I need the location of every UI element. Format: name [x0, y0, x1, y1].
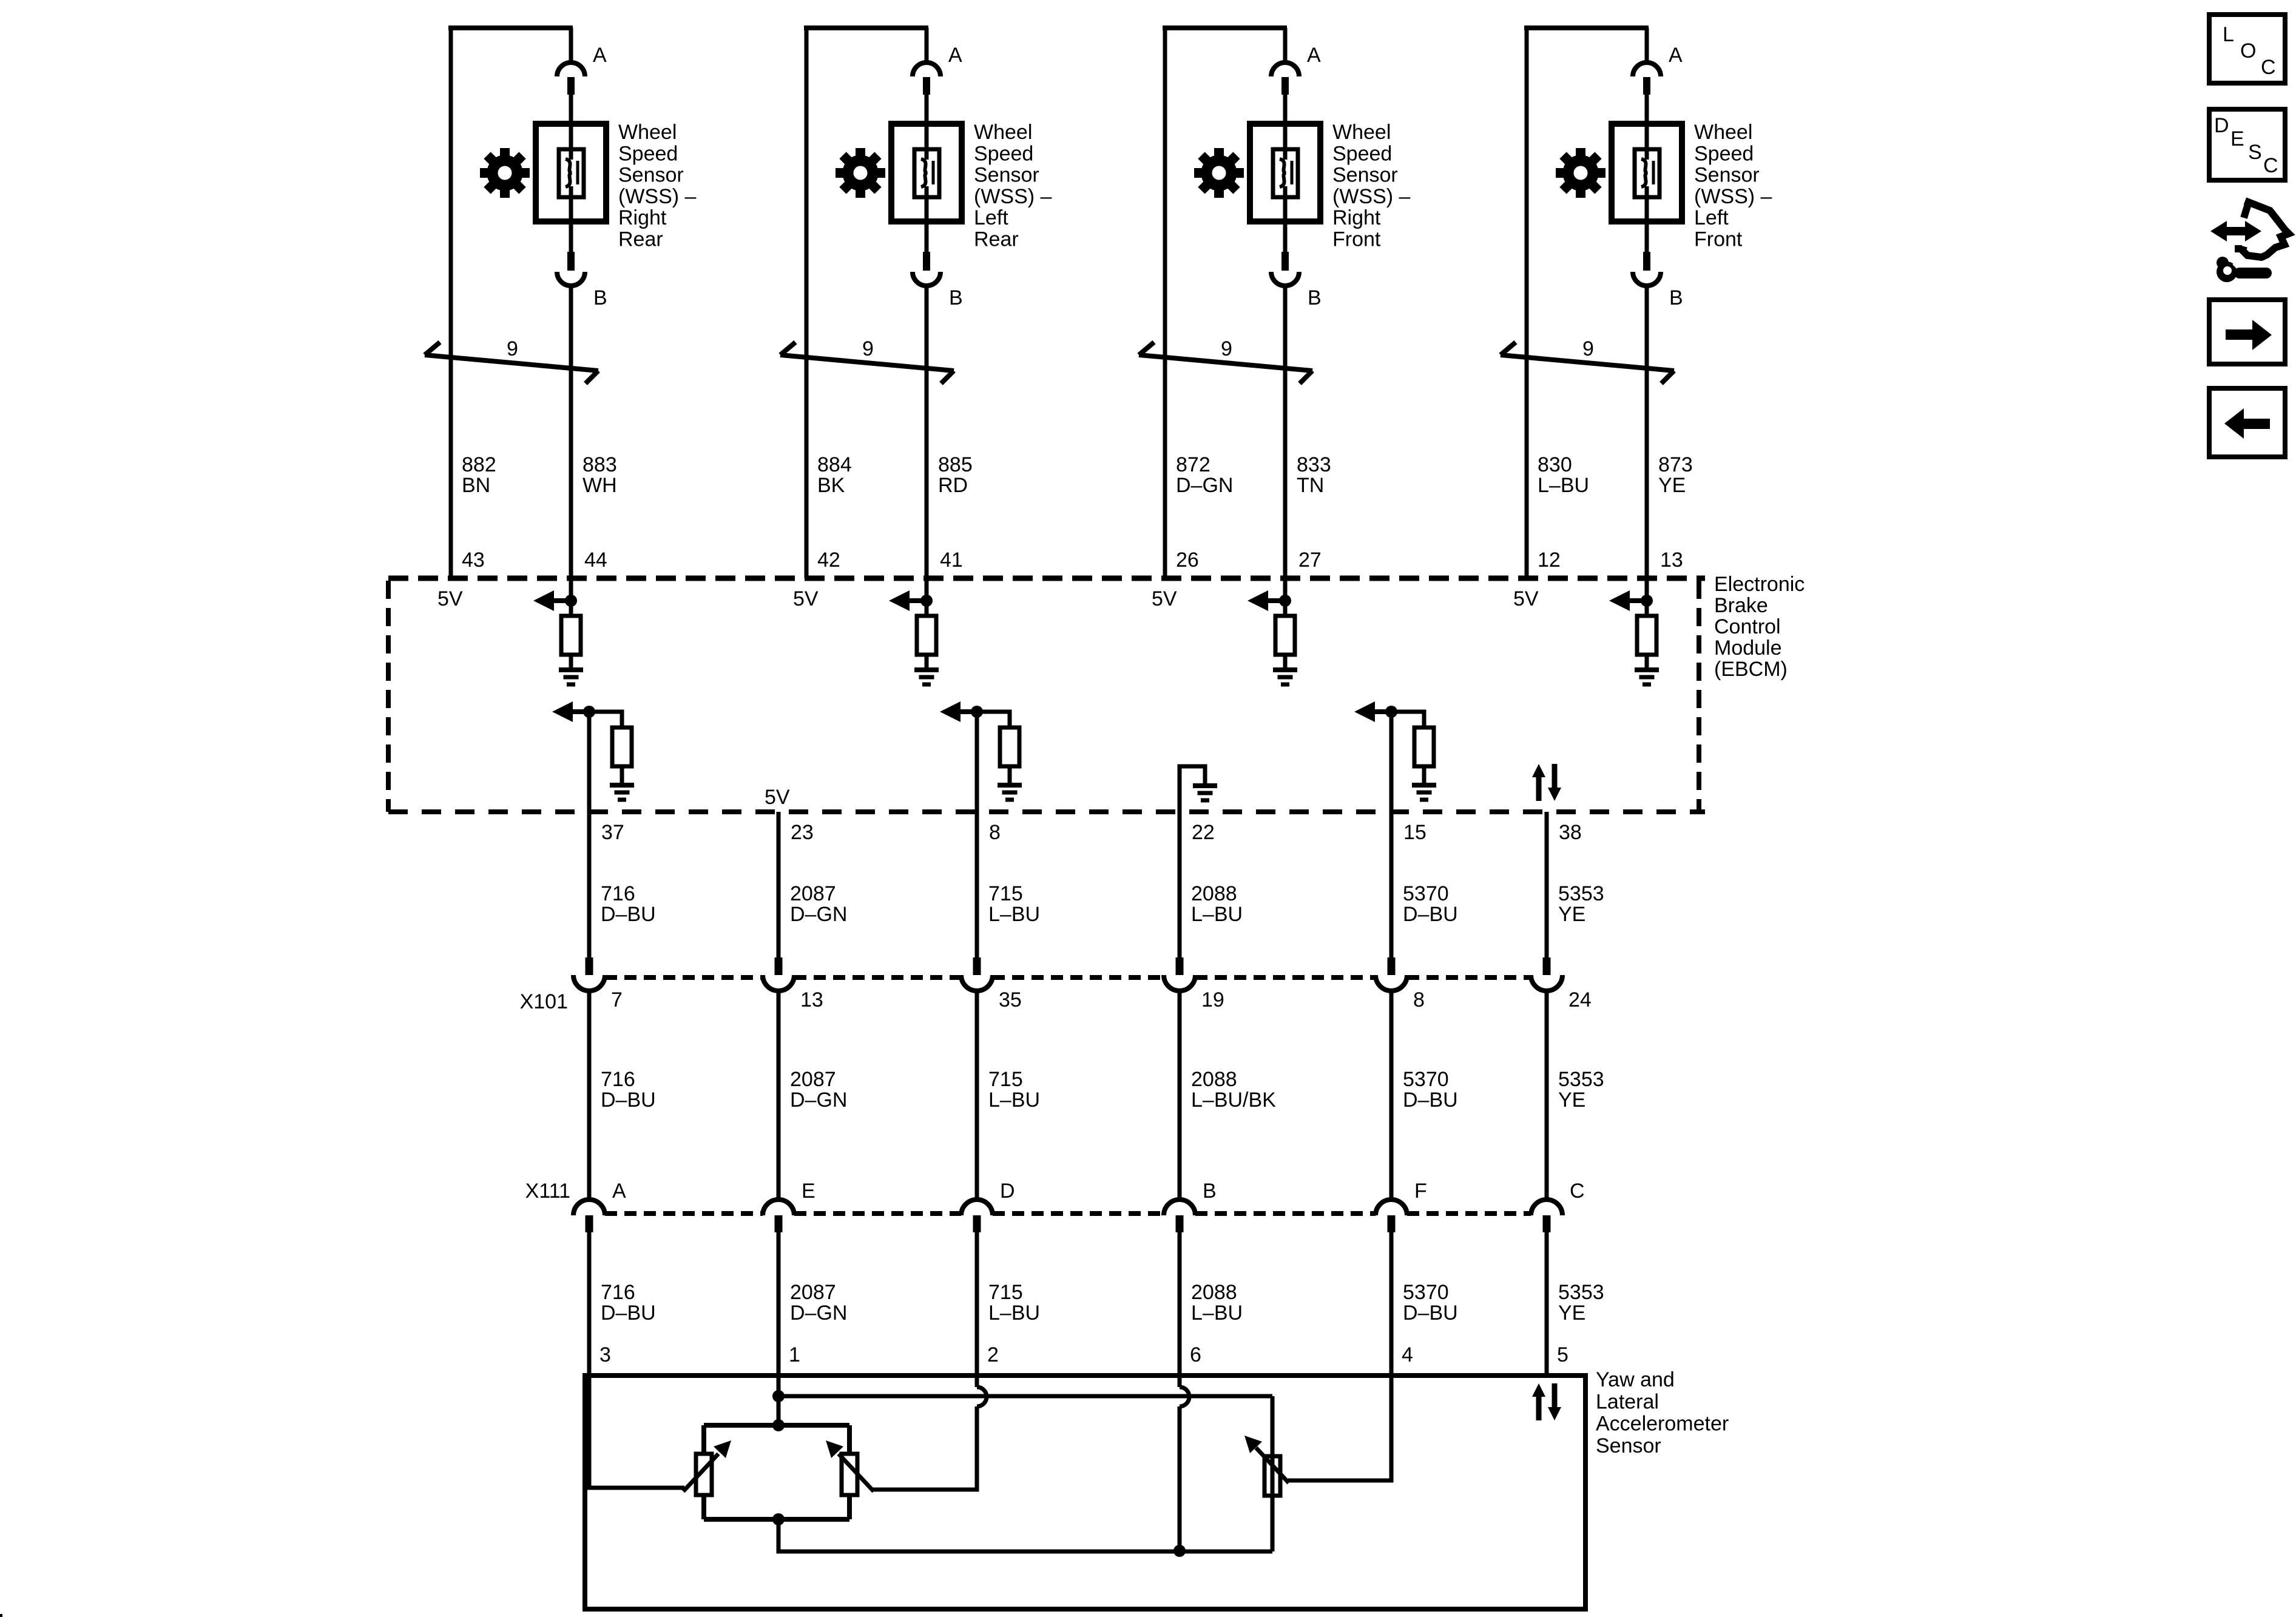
- svg-text:883WH: 883WH: [582, 453, 617, 497]
- svg-text:D: D: [1000, 1180, 1015, 1203]
- wire 5353 YE X101 to X111: [1545, 991, 1549, 1200]
- svg-text:7: 7: [611, 988, 623, 1011]
- svg-text:12: 12: [1538, 549, 1561, 572]
- svg-text:13: 13: [1660, 549, 1683, 572]
- svg-text:5V: 5V: [1513, 587, 1539, 610]
- X101 cavity 24: [1531, 957, 1562, 991]
- wire pin2 to lateral sensor wiper with hop: [975, 1232, 979, 1387]
- svg-text:8: 8: [1413, 988, 1425, 1011]
- svg-text:S: S: [2248, 141, 2262, 164]
- X101 cavity 7: [573, 957, 605, 991]
- junction bridge bottom: [772, 1513, 785, 1525]
- svg-text:15: 15: [1403, 821, 1427, 844]
- svg-text:5V: 5V: [437, 587, 463, 610]
- yaw rate bridge box: [704, 1425, 849, 1519]
- wire 2088 L-BU pin22 to X101-19: [1178, 812, 1182, 957]
- svg-text:A: A: [1307, 44, 1321, 67]
- X111 cavity C: [1531, 1200, 1562, 1232]
- wire pin3 to yaw-rate variable resistor wiper: [589, 1232, 684, 1488]
- svg-text:9: 9: [507, 337, 518, 360]
- svg-text:5V: 5V: [765, 786, 790, 809]
- svg-text:C: C: [1570, 1180, 1585, 1203]
- svg-text:1: 1: [789, 1343, 800, 1366]
- EBCM output driver arrow, resistor and ground at x=971: [552, 701, 634, 800]
- svg-text:E: E: [2230, 127, 2244, 150]
- svg-text:44: 44: [584, 549, 607, 572]
- svg-text:885RD: 885RD: [938, 453, 973, 497]
- svg-text:6: 6: [1190, 1343, 1201, 1366]
- X111 cavity D: [961, 1200, 993, 1232]
- EBCM output driver arrow, resistor and ground at x=2293: [1354, 701, 1436, 800]
- wire pin1 5V supply: [777, 1232, 781, 1425]
- variable resistor R-B: [842, 1454, 857, 1495]
- EBCM serial data symbol at pin 38: [1532, 764, 1561, 801]
- svg-text:C: C: [2261, 56, 2276, 79]
- svg-text:B: B: [593, 286, 607, 309]
- svg-text:19: 19: [1201, 988, 1224, 1011]
- EBCM 5V pull-up, arrow, resistor and ground at wire x=2118: [1248, 590, 1297, 684]
- svg-text:42: 42: [817, 549, 840, 572]
- X111 cavity F: [1376, 1200, 1407, 1232]
- wire 5370 D-BU pin15 to X101-8: [1389, 712, 1394, 957]
- svg-text:F: F: [1414, 1180, 1427, 1203]
- svg-text:B: B: [1308, 286, 1322, 309]
- wire 2087 D-GN X101 to X111: [777, 991, 781, 1200]
- svg-text:37: 37: [601, 821, 624, 844]
- svg-text:26: 26: [1176, 549, 1199, 572]
- wire 716 D-BU pin37 to X101-7: [587, 712, 592, 957]
- junction ground bus / pin 6: [1173, 1545, 1186, 1557]
- svg-text:9: 9: [1582, 337, 1594, 360]
- svg-text:35: 35: [999, 988, 1022, 1011]
- svg-text:X101: X101: [520, 990, 568, 1013]
- X111 cavity E: [763, 1200, 794, 1232]
- svg-text:24: 24: [1568, 988, 1592, 1011]
- svg-text:B: B: [949, 286, 963, 309]
- svg-text:22: 22: [1192, 821, 1215, 844]
- EBCM module dashed box: [388, 576, 1705, 581]
- svg-text:A: A: [612, 1180, 626, 1203]
- ground return bus: [778, 1496, 1272, 1551]
- svg-text:A: A: [1669, 44, 1683, 67]
- svg-text:5V: 5V: [793, 587, 819, 610]
- wheel speed sensor Right Front (WSS) with tone wheel: [1139, 25, 1320, 601]
- wheel speed sensor Left Front (WSS) with tone wheel: [1501, 25, 1682, 601]
- svg-text:23: 23: [791, 821, 814, 844]
- X101 cavity 8: [1376, 957, 1407, 991]
- variable resistor R-C (lateral accelerometer): [1264, 1456, 1280, 1496]
- wire pin5 shield/serial: [1545, 1232, 1549, 1376]
- svg-text:27: 27: [1298, 549, 1322, 572]
- X111 cavity A: [573, 1200, 605, 1232]
- wheel speed sensor Right Rear (WSS) with tone wheel: [425, 25, 606, 601]
- svg-text:9: 9: [862, 337, 874, 360]
- back navigation box: [2209, 388, 2285, 457]
- variable resistor R-A: [696, 1454, 712, 1495]
- wire 716 D-BU X101 to X111: [587, 991, 592, 1200]
- svg-text:41: 41: [940, 549, 963, 572]
- forward navigation box: [2209, 300, 2285, 364]
- X101 cavity 19: [1164, 957, 1195, 991]
- X111 cavity B: [1164, 1200, 1195, 1232]
- svg-text:5: 5: [1557, 1343, 1568, 1366]
- svg-text:O: O: [2240, 39, 2256, 62]
- svg-text:38: 38: [1559, 821, 1582, 844]
- yaw sensor serial data double arrow: [1532, 1383, 1561, 1420]
- svg-text:3: 3: [599, 1343, 611, 1366]
- adjust/repair hand-wrench icon: [2210, 201, 2289, 282]
- svg-text:2: 2: [987, 1343, 999, 1366]
- EBCM 5V pull-up, arrow, resistor and ground at wire x=2714: [1609, 590, 1659, 684]
- junction bridge top: [772, 1419, 785, 1431]
- EBCM internal ground at pin 22: [1180, 766, 1205, 812]
- EBCM 5V pull-up, arrow, resistor and ground at wire x=941: [533, 590, 583, 684]
- svg-text:2088L–BU: 2088L–BU: [1191, 882, 1243, 926]
- svg-text:B: B: [1203, 1180, 1217, 1203]
- svg-text:2088L–BU: 2088L–BU: [1191, 1281, 1243, 1325]
- svg-text:B: B: [1669, 286, 1683, 309]
- svg-text:8: 8: [989, 821, 1001, 844]
- svg-text:C: C: [2263, 154, 2278, 177]
- LOC navigation box: [2209, 15, 2285, 83]
- X101 cavity 35: [961, 957, 993, 991]
- junction pin1/5V bus: [772, 1390, 785, 1402]
- EBCM 5V pull-up, arrow, resistor and ground at wire x=1527: [889, 590, 939, 684]
- wire 715 L-BU X101 to X111: [975, 991, 979, 1200]
- wire 5370 D-BU X101 to X111: [1389, 991, 1394, 1200]
- wire 715 L-BU pin8 to X101-35: [975, 712, 979, 957]
- wire pin6 sensor ground with hop: [1178, 1232, 1182, 1387]
- svg-text:4: 4: [1402, 1343, 1413, 1366]
- Yaw and Lateral Accelerometer Sensor box: [585, 1376, 1585, 1609]
- wire pin4 to accelerometer wiper: [1288, 1232, 1391, 1480]
- connector X111 dashed line: [605, 1211, 763, 1216]
- svg-text:L: L: [2223, 23, 2234, 46]
- wire 2088 L-BU/BK X101 to X111: [1178, 991, 1182, 1200]
- 5V distribution bus from pin 1: [778, 1396, 1272, 1456]
- svg-text:X111: X111: [525, 1180, 570, 1203]
- svg-text:A: A: [948, 44, 962, 67]
- svg-text:13: 13: [800, 988, 823, 1011]
- EBCM output driver arrow, resistor and ground at x=1610: [940, 701, 1022, 800]
- svg-text:A: A: [593, 44, 607, 67]
- svg-text:43: 43: [462, 549, 485, 572]
- page corner mark: [0, 1614, 2, 1617]
- svg-text:E: E: [802, 1180, 815, 1203]
- wire 5353 YE pin38 to X101-24: [1545, 812, 1549, 957]
- X101 cavity 13: [763, 957, 794, 991]
- DESC navigation box: [2209, 109, 2285, 180]
- svg-text:D: D: [2214, 114, 2229, 137]
- connector X101 dashed line: [605, 975, 763, 980]
- wheel speed sensor Left Rear (WSS) with tone wheel: [780, 25, 962, 601]
- wire 2087 D-GN pin23 to X101-13: [777, 812, 781, 957]
- svg-text:5V: 5V: [1152, 587, 1177, 610]
- svg-text:9: 9: [1221, 337, 1232, 360]
